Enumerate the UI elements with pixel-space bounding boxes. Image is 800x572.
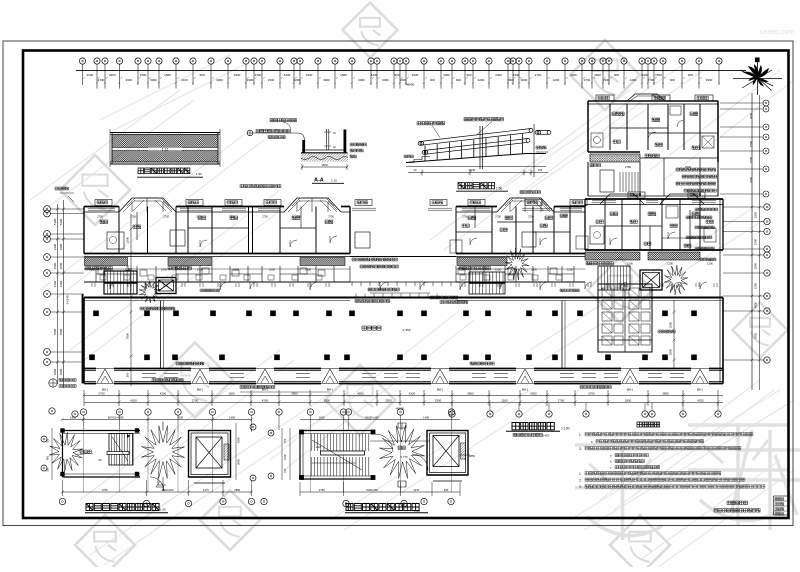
svg-text:1500: 1500 <box>53 262 57 269</box>
svg-text:3000: 3000 <box>234 73 241 77</box>
svg-text:2100: 2100 <box>59 280 63 287</box>
svg-text:3300: 3300 <box>385 398 392 402</box>
svg-text:49800: 49800 <box>406 83 415 87</box>
svg-text:1500: 1500 <box>89 268 95 272</box>
svg-text:90250+250: 90250+250 <box>365 415 379 419</box>
svg-text:BM-1: BM-1 <box>627 388 634 392</box>
svg-text:4200: 4200 <box>409 391 416 395</box>
stair detail 2 title <box>345 504 428 514</box>
svg-text:3900: 3900 <box>507 78 514 82</box>
svg-text:4200: 4200 <box>478 78 485 82</box>
svg-text:900: 900 <box>614 73 619 77</box>
svg-text:3900: 3900 <box>662 391 669 395</box>
svg-text:900: 900 <box>456 78 461 82</box>
svg-text:1750: 1750 <box>102 488 108 492</box>
svg-text:4640: 4640 <box>469 168 476 172</box>
svg-text:3000: 3000 <box>358 78 365 82</box>
svg-text:4000=200: 4000=200 <box>161 488 174 492</box>
svg-text:1500: 1500 <box>400 78 407 82</box>
unit enlarged plan top right <box>588 94 718 196</box>
svg-text:3300: 3300 <box>382 78 389 82</box>
svg-text:1470: 1470 <box>203 488 209 492</box>
svg-text:1.: 1. <box>579 472 582 476</box>
svg-text:2850: 2850 <box>234 488 240 492</box>
svg-text:1500: 1500 <box>603 78 610 82</box>
svg-text:1500: 1500 <box>459 268 465 272</box>
svg-text:4500: 4500 <box>754 301 758 308</box>
svg-text:3900: 3900 <box>53 368 57 375</box>
svg-text:1800: 1800 <box>625 398 632 402</box>
svg-text:1500: 1500 <box>340 73 347 77</box>
svg-text:3900: 3900 <box>291 391 298 395</box>
svg-text:3300: 3300 <box>495 73 502 77</box>
svg-text:3000: 3000 <box>521 78 528 82</box>
svg-text:3300: 3300 <box>53 243 57 250</box>
svg-text:2700: 2700 <box>588 391 595 395</box>
svg-text:1800: 1800 <box>324 398 331 402</box>
ramp elevation title <box>456 183 508 192</box>
main floor plan <box>83 185 724 393</box>
svg-text:4200: 4200 <box>530 391 537 395</box>
svg-text:4200: 4200 <box>697 398 704 402</box>
svg-text:3300: 3300 <box>125 78 132 82</box>
svg-text:3300: 3300 <box>749 176 753 183</box>
svg-text:1500: 1500 <box>531 268 537 272</box>
svg-text:1400: 1400 <box>70 415 76 419</box>
svg-text:7800: 7800 <box>754 332 758 339</box>
svg-text:900: 900 <box>670 78 675 82</box>
north arrow compass <box>733 58 782 96</box>
svg-text:750: 750 <box>283 438 287 443</box>
svg-text:4200: 4200 <box>357 391 364 395</box>
svg-text:1800: 1800 <box>237 437 241 443</box>
svg-text:1600: 1600 <box>319 415 325 419</box>
svg-text:1:12: 1:12 <box>162 148 168 152</box>
svg-text:4200: 4200 <box>160 391 167 395</box>
accessible ramp elevation <box>404 118 551 178</box>
svg-text:2700: 2700 <box>558 398 565 402</box>
svg-text:2600: 2600 <box>237 459 241 465</box>
svg-text:2700: 2700 <box>98 78 105 82</box>
svg-text:1000: 1000 <box>321 163 328 167</box>
svg-text:1500: 1500 <box>59 262 63 269</box>
right annotation column <box>686 93 769 390</box>
accessible ramp plan hatch <box>110 129 220 167</box>
svg-text:2700: 2700 <box>229 216 235 219</box>
svg-text:1800: 1800 <box>754 262 758 269</box>
svg-text:1200: 1200 <box>553 78 560 82</box>
svg-text:1500: 1500 <box>501 398 508 402</box>
svg-text:1:12: 1:12 <box>315 445 321 449</box>
svg-text:1500: 1500 <box>306 73 313 77</box>
stair detail 1 <box>41 409 256 507</box>
svg-text:4200: 4200 <box>371 73 378 77</box>
svg-text:2700: 2700 <box>561 216 567 219</box>
svg-text:2700: 2700 <box>535 73 542 77</box>
svg-text:3900: 3900 <box>247 78 254 82</box>
svg-text:3300: 3300 <box>443 73 450 77</box>
svg-text:34.540: 34.540 <box>66 295 70 305</box>
svg-text:2100: 2100 <box>181 78 188 82</box>
svg-text:2700: 2700 <box>749 140 753 147</box>
svg-text:2700: 2700 <box>528 216 534 219</box>
svg-text:3000: 3000 <box>150 78 157 82</box>
svg-text:2850: 2850 <box>469 454 475 458</box>
svg-text:1500: 1500 <box>140 73 147 77</box>
svg-text:1750: 1750 <box>319 488 325 492</box>
svg-text:3000: 3000 <box>749 112 753 119</box>
svg-text:3300: 3300 <box>126 236 130 243</box>
svg-text:1200: 1200 <box>627 262 633 266</box>
svg-text:900: 900 <box>466 73 471 77</box>
svg-text:1500: 1500 <box>749 156 753 163</box>
svg-text:4200: 4200 <box>294 78 301 82</box>
svg-text:2100: 2100 <box>53 280 57 287</box>
svg-text:1:10: 1:10 <box>331 179 337 183</box>
svg-text:3900: 3900 <box>467 391 474 395</box>
svg-text:1500: 1500 <box>197 268 203 272</box>
notes block <box>579 422 765 489</box>
svg-text:7800: 7800 <box>53 328 57 335</box>
svg-text:1500: 1500 <box>283 454 287 460</box>
svg-text:BM-1: BM-1 <box>327 388 334 392</box>
svg-text:1:50: 1:50 <box>196 172 202 176</box>
svg-text:6070/2=3035: 6070/2=3035 <box>108 415 124 419</box>
svg-text:2.: 2. <box>579 478 582 482</box>
svg-text:5100: 5100 <box>59 218 63 225</box>
svg-text:-1.950: -1.950 <box>402 328 411 332</box>
svg-text:2700: 2700 <box>97 216 103 219</box>
svg-text:3.: 3. <box>579 447 582 451</box>
svg-text:2700: 2700 <box>754 238 758 245</box>
svg-text:1500: 1500 <box>125 268 131 272</box>
svg-text:900: 900 <box>688 73 693 77</box>
svg-text:2100: 2100 <box>86 73 93 77</box>
A-A section detail <box>247 119 366 171</box>
bottom dimension chain <box>49 390 723 417</box>
svg-text:4200: 4200 <box>109 73 116 77</box>
svg-text:1470: 1470 <box>413 488 419 492</box>
svg-text:1400: 1400 <box>229 415 235 419</box>
svg-text:2700: 2700 <box>625 165 632 169</box>
svg-text:7800: 7800 <box>126 332 130 339</box>
svg-text:940: 940 <box>444 488 449 492</box>
svg-text:3900: 3900 <box>323 78 330 82</box>
svg-text:1800: 1800 <box>669 348 673 355</box>
svg-text:3300: 3300 <box>59 243 63 250</box>
svg-text:3.: 3. <box>579 485 582 489</box>
svg-text:1:50: 1:50 <box>496 187 502 191</box>
svg-text:1500: 1500 <box>268 78 275 82</box>
svg-text:1500: 1500 <box>161 268 167 272</box>
svg-text:2700: 2700 <box>462 216 468 219</box>
svg-text:2100: 2100 <box>754 282 758 289</box>
svg-text:3300: 3300 <box>255 73 262 77</box>
svg-text:1200: 1200 <box>707 262 713 266</box>
first floor plan title <box>506 423 570 438</box>
svg-text:1200: 1200 <box>667 262 673 266</box>
svg-text:1500: 1500 <box>655 73 662 77</box>
svg-text:A-A: A-A <box>314 178 324 184</box>
svg-text:2700: 2700 <box>584 78 591 82</box>
right leader texts <box>676 168 718 192</box>
svg-text:3300: 3300 <box>669 321 673 328</box>
svg-text:2700: 2700 <box>262 216 268 219</box>
svg-text:3900: 3900 <box>59 368 63 375</box>
svg-text:900: 900 <box>199 73 204 77</box>
svg-text:7020+550: 7020+550 <box>366 488 379 492</box>
svg-text:BM-1: BM-1 <box>437 388 444 392</box>
svg-text:1:100: 1:100 <box>561 427 570 431</box>
svg-text:3300: 3300 <box>435 398 442 402</box>
title block <box>714 496 789 515</box>
svg-text:3000: 3000 <box>594 73 601 77</box>
svg-text:4200: 4200 <box>570 73 577 77</box>
svg-text:3.770: 3.770 <box>401 455 408 459</box>
stair detail 2 <box>261 409 476 507</box>
svg-text:1500: 1500 <box>164 73 171 77</box>
svg-text:UP: UP <box>98 458 102 462</box>
svg-text:900: 900 <box>46 455 50 460</box>
ramp plan title <box>137 168 203 177</box>
svg-text:1500: 1500 <box>305 268 311 272</box>
svg-text:4200: 4200 <box>130 398 137 402</box>
left dimension band <box>44 187 84 388</box>
svg-text:2700: 2700 <box>648 78 655 82</box>
svg-text:1500: 1500 <box>495 268 501 272</box>
svg-text:2700: 2700 <box>495 216 501 219</box>
svg-text:1400: 1400 <box>423 415 429 419</box>
svg-text:1200: 1200 <box>630 78 637 82</box>
inner drawing frame <box>23 51 789 519</box>
svg-text:BM-1: BM-1 <box>197 388 204 392</box>
svg-text:7800: 7800 <box>59 328 63 335</box>
svg-text:2700: 2700 <box>163 216 169 219</box>
svg-text:BM-1: BM-1 <box>697 388 704 392</box>
svg-text:3035: 3035 <box>177 415 183 419</box>
svg-text:5100: 5100 <box>53 218 57 225</box>
svg-text:2700: 2700 <box>130 216 136 219</box>
svg-text:BM-1: BM-1 <box>522 388 529 392</box>
svg-text:1500: 1500 <box>269 268 275 272</box>
svg-text:2700: 2700 <box>295 216 301 219</box>
svg-text:3900: 3900 <box>706 78 713 82</box>
svg-text:1500: 1500 <box>233 268 239 272</box>
svg-text:750: 750 <box>283 468 287 473</box>
svg-text:2700: 2700 <box>328 216 334 219</box>
svg-text:1500: 1500 <box>567 268 573 272</box>
svg-text:4200: 4200 <box>284 73 291 77</box>
svg-text:3300: 3300 <box>754 211 758 218</box>
faint header text <box>760 29 794 36</box>
svg-text:900: 900 <box>394 73 399 77</box>
svg-text::1402: :1402 <box>542 434 549 438</box>
svg-text:3300: 3300 <box>216 78 223 82</box>
svg-text:4200: 4200 <box>262 398 269 402</box>
svg-text:140: 140 <box>538 168 543 172</box>
stair detail 1 title <box>85 504 168 513</box>
svg-text:3900: 3900 <box>412 73 419 77</box>
top column grid dimension band <box>76 58 746 89</box>
A-A title <box>312 178 344 184</box>
svg-text:3300: 3300 <box>513 73 520 77</box>
svg-text:1500: 1500 <box>228 391 235 395</box>
svg-text:1200: 1200 <box>587 262 593 266</box>
svg-text:2700: 2700 <box>196 216 202 219</box>
svg-text:2700: 2700 <box>98 391 105 395</box>
svg-text:900: 900 <box>430 78 435 82</box>
svg-text:3000: 3000 <box>642 73 649 77</box>
svg-text:390: 390 <box>126 372 130 377</box>
svg-text:2700: 2700 <box>192 398 199 402</box>
svg-text:1:50: 1:50 <box>160 508 166 512</box>
svg-text:1.: 1. <box>579 433 582 437</box>
svg-text:ceeeo.com: ceeeo.com <box>760 29 794 36</box>
right dimension band <box>723 204 770 363</box>
